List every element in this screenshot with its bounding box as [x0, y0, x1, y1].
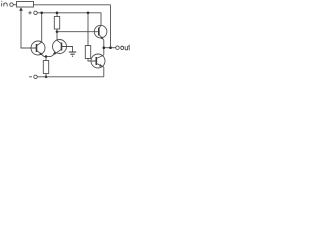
- wire Q3 emitter to output node: [103, 40, 105, 48]
- node junction dot Q1 collector on + rail: [40, 12, 43, 15]
- wire R3 bottom to Q4 base: [88, 59, 96, 62]
- wire R1 top to + rail: [56, 13, 58, 17]
- wire pot right terminal to feedback (top): [34, 4, 111, 6]
- wire + supply rail: [37, 13, 101, 25]
- node A junction dot (Q2 collector / Q3 base): [56, 30, 59, 33]
- input terminal "in": [1, 1, 13, 7]
- wire emitter bus to R2: [45, 57, 47, 61]
- output terminal "out": [116, 45, 130, 50]
- transistor Q2 (mirrored): [51, 40, 67, 57]
- resistor R2: [43, 61, 48, 74]
- ground: [69, 52, 76, 56]
- transistor Q4: [91, 54, 105, 68]
- node junction dot Q3/Q4 output: [103, 46, 106, 49]
- wire R2 bottom to - rail: [45, 74, 47, 77]
- wire R3 top to + rail: [87, 13, 89, 46]
- wire Q2 base to ground: [62, 47, 73, 53]
- transistor Q3: [94, 25, 107, 40]
- node junction dot R1 on + rail: [56, 12, 59, 15]
- wire Q4 collector to output node: [103, 48, 105, 55]
- wire in terminal to potentiometer: [13, 4, 16, 6]
- wire feedback vertical from top to output node: [110, 5, 112, 48]
- wire output node: [104, 47, 116, 49]
- + supply terminal: [28, 11, 37, 15]
- wire node A to Q3 base: [57, 31, 99, 33]
- potentiometer P1 (body): [17, 2, 34, 8]
- wire shared emitter bus: [44, 56, 51, 58]
- - supply terminal: [29, 75, 37, 79]
- transistor Q1: [31, 41, 45, 57]
- resistor R1: [54, 17, 59, 30]
- node junction dot R2 on - rail: [45, 76, 48, 79]
- node junction dot emitter bus / R2: [45, 55, 48, 58]
- node junction dot feedback on output wire: [109, 46, 112, 49]
- wire Q4 emitter to - rail: [103, 67, 105, 77]
- wire Q1 collector to + rail: [41, 13, 43, 42]
- potentiometer wiper arrow: [19, 7, 36, 48]
- wire - supply rail: [37, 76, 103, 78]
- node junction dot R3 on + rail: [87, 12, 90, 15]
- resistor R3: [85, 46, 90, 59]
- wire R1 bottom to Q2 collector: [56, 29, 58, 40]
